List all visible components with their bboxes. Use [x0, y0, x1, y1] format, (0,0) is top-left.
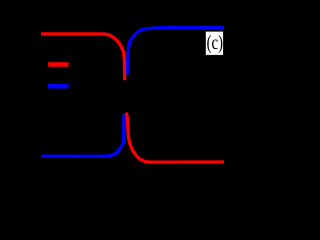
legend red dash [48, 62, 68, 67]
legend blue dash [48, 84, 68, 89]
panel label (c) white box [206, 32, 223, 55]
blue curve upper-right branch [127, 28, 224, 75]
red curve lower-right branch [125, 113, 224, 162]
panel label (c) text [207, 35, 222, 53]
red curve upper-left branch [41, 34, 125, 80]
blue curve lower-left branch [41, 113, 124, 156]
